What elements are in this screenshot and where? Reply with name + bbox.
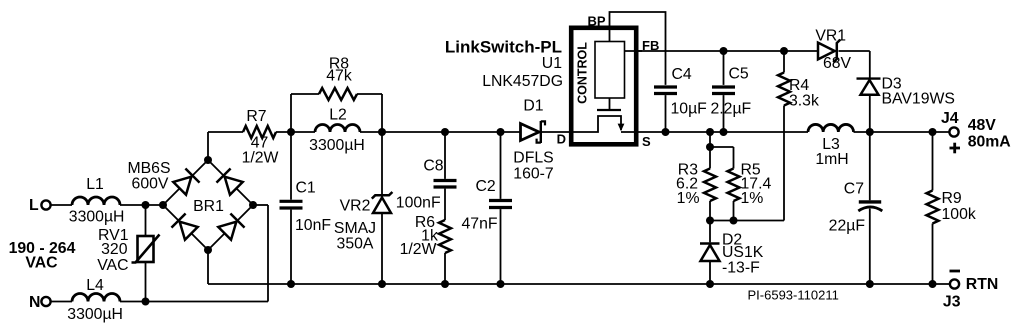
svg-text:VR2: VR2 bbox=[340, 198, 371, 215]
svg-text:R4: R4 bbox=[789, 77, 809, 94]
svg-text:C5: C5 bbox=[729, 66, 749, 83]
svg-text:3.3k: 3.3k bbox=[789, 93, 819, 110]
svg-text:L2: L2 bbox=[329, 107, 347, 124]
svg-text:1mH: 1mH bbox=[815, 151, 848, 168]
svg-text:10nF: 10nF bbox=[295, 217, 331, 234]
svg-text:C7: C7 bbox=[844, 181, 864, 198]
svg-text:47k: 47k bbox=[326, 68, 352, 85]
svg-text:1/2W: 1/2W bbox=[242, 150, 279, 167]
svg-text:600V: 600V bbox=[132, 176, 169, 193]
svg-text:100k: 100k bbox=[942, 206, 976, 223]
svg-text:R9: R9 bbox=[942, 190, 962, 207]
svg-text:10µF: 10µF bbox=[671, 101, 708, 118]
svg-text:J3: J3 bbox=[943, 293, 961, 310]
svg-text:47nF: 47nF bbox=[462, 216, 498, 233]
svg-text:BP: BP bbox=[587, 14, 605, 29]
svg-text:DFLS: DFLS bbox=[513, 150, 553, 167]
svg-text:3300µH: 3300µH bbox=[69, 209, 125, 226]
svg-text:-13-F: -13-F bbox=[722, 260, 760, 277]
svg-text:N: N bbox=[29, 294, 40, 311]
svg-text:100nF: 100nF bbox=[396, 195, 441, 212]
svg-text:L: L bbox=[29, 197, 39, 214]
svg-text:PI-6593-110211: PI-6593-110211 bbox=[748, 288, 839, 303]
svg-text:VAC: VAC bbox=[97, 257, 128, 274]
svg-text:3300µH: 3300µH bbox=[309, 137, 365, 154]
svg-text:C2: C2 bbox=[476, 178, 496, 195]
svg-text:J4: J4 bbox=[941, 110, 959, 127]
svg-text:VR1: VR1 bbox=[815, 28, 846, 45]
svg-text:CONTROL: CONTROL bbox=[576, 42, 590, 104]
svg-text:L4: L4 bbox=[86, 277, 104, 294]
svg-text:SMAJ: SMAJ bbox=[334, 220, 376, 237]
svg-text:C8: C8 bbox=[423, 158, 443, 175]
svg-text:C1: C1 bbox=[296, 180, 316, 197]
svg-text:D1: D1 bbox=[523, 98, 543, 115]
svg-text:L1: L1 bbox=[86, 176, 104, 193]
svg-text:350A: 350A bbox=[337, 236, 374, 253]
svg-text:VAC: VAC bbox=[25, 255, 57, 272]
svg-text:LNK457DG: LNK457DG bbox=[482, 73, 563, 90]
svg-text:BAV19WS: BAV19WS bbox=[882, 91, 955, 108]
svg-text:S: S bbox=[642, 134, 651, 149]
svg-text:2.2µF: 2.2µF bbox=[711, 101, 752, 118]
svg-text:48V: 48V bbox=[968, 117, 997, 134]
svg-text:FB: FB bbox=[642, 38, 659, 53]
svg-text:D: D bbox=[557, 132, 566, 147]
svg-text:C4: C4 bbox=[672, 66, 692, 83]
svg-text:80mA: 80mA bbox=[968, 134, 1011, 151]
svg-text:LinkSwitch-PL: LinkSwitch-PL bbox=[445, 38, 562, 57]
svg-text:R7: R7 bbox=[246, 108, 266, 125]
svg-text:1/2W: 1/2W bbox=[400, 241, 437, 258]
svg-text:68V: 68V bbox=[823, 55, 852, 72]
svg-text:3300µH: 3300µH bbox=[67, 306, 123, 323]
svg-text:22µF: 22µF bbox=[829, 218, 866, 235]
svg-text:U1: U1 bbox=[542, 55, 562, 72]
svg-text:MB6S: MB6S bbox=[127, 160, 170, 177]
svg-text:160-7: 160-7 bbox=[513, 166, 553, 183]
svg-text:RTN: RTN bbox=[966, 276, 998, 293]
svg-text:1%: 1% bbox=[677, 190, 700, 207]
svg-text:BR1: BR1 bbox=[193, 198, 224, 215]
svg-text:US1K: US1K bbox=[722, 244, 764, 261]
svg-text:1%: 1% bbox=[741, 190, 764, 207]
svg-text:320: 320 bbox=[101, 241, 128, 258]
